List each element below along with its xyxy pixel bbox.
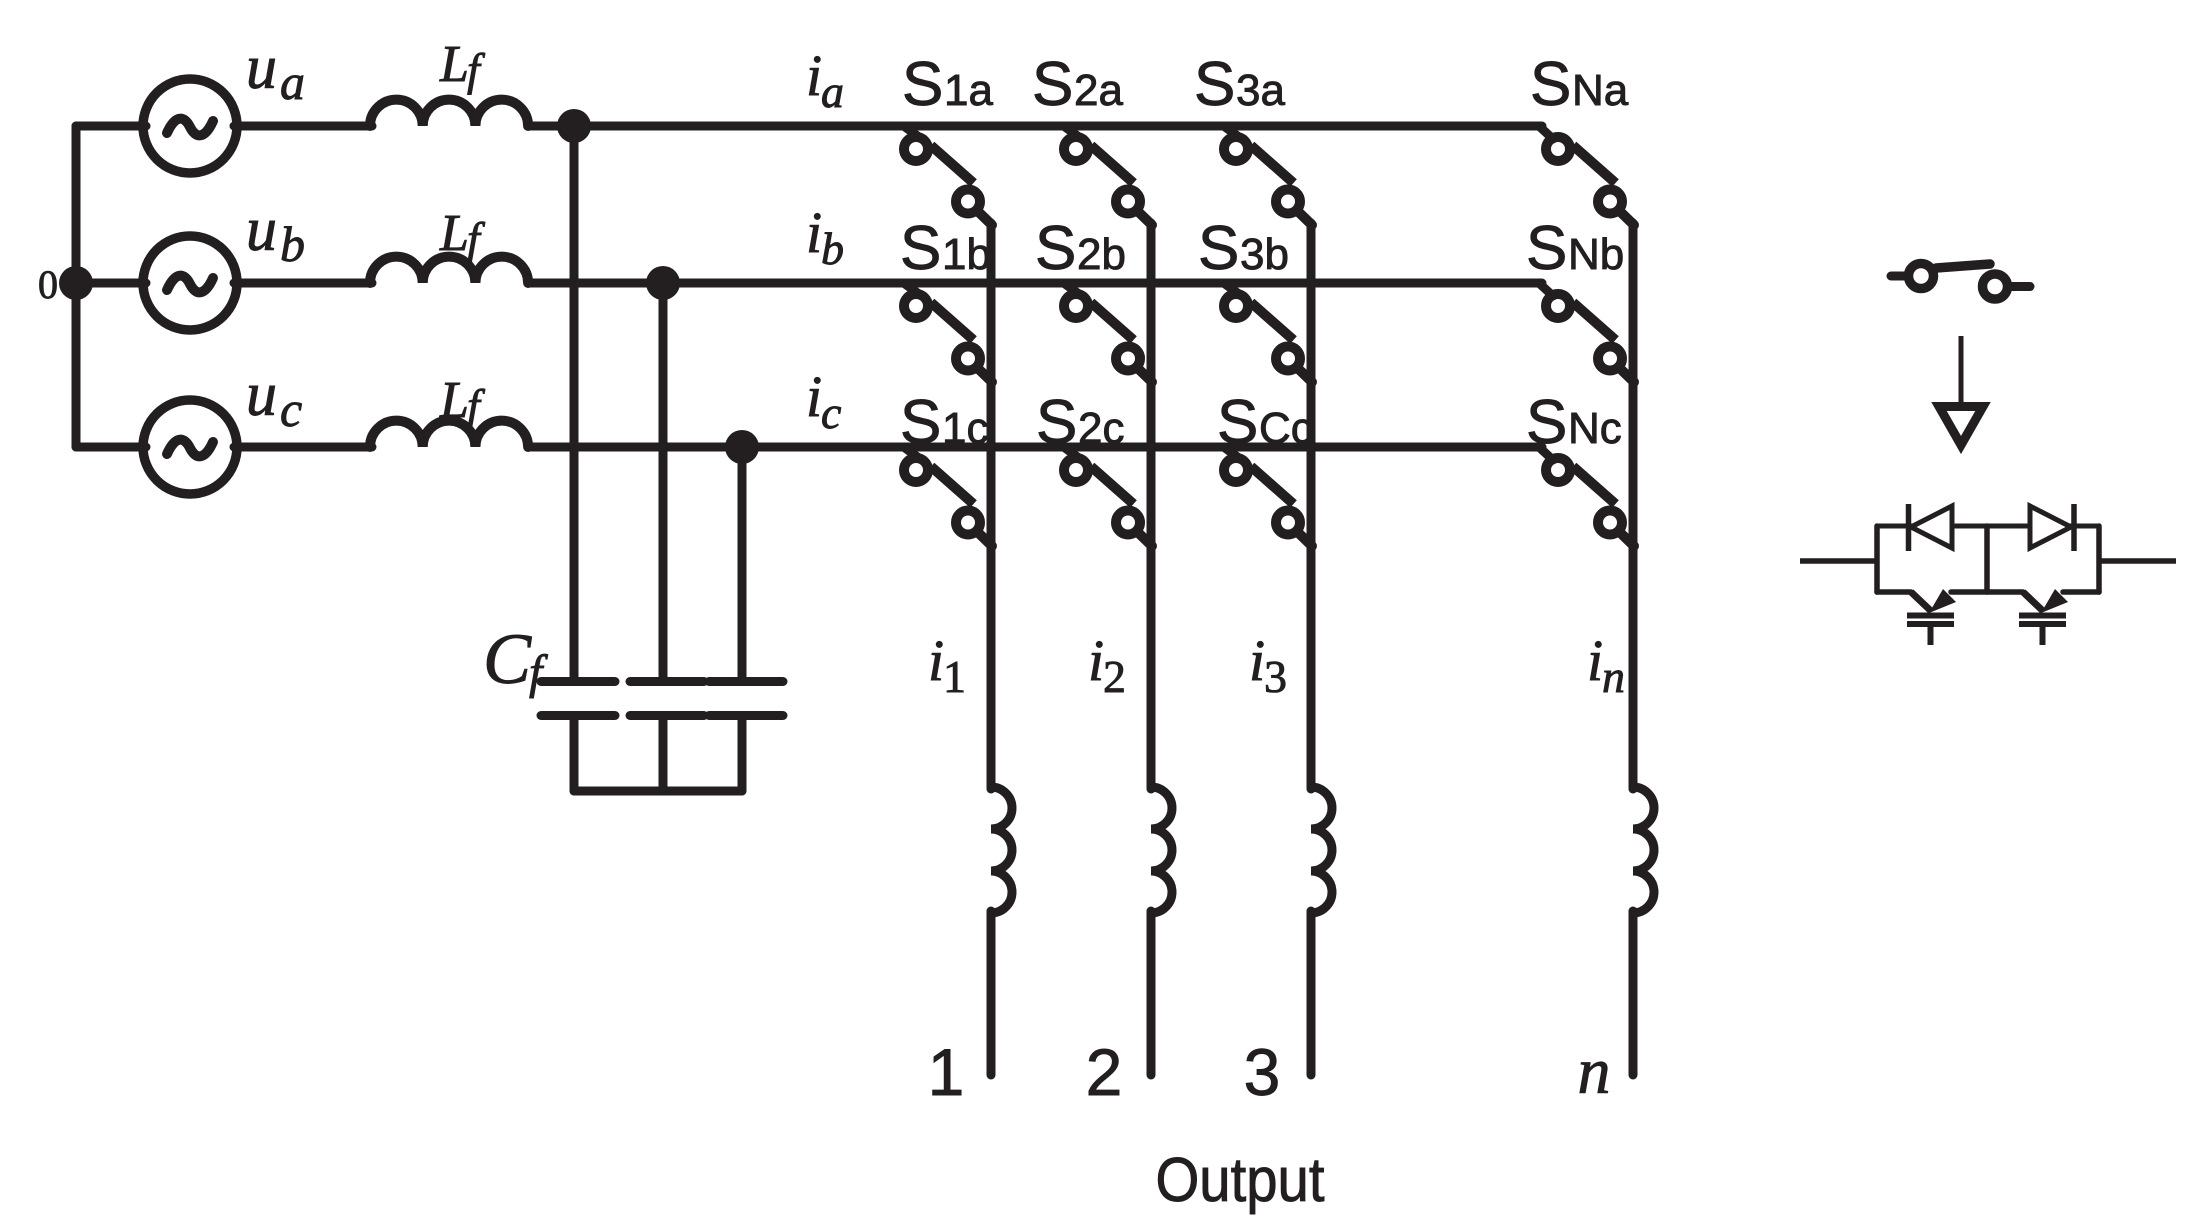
svg-text:n: n xyxy=(1602,651,1625,702)
svg-text:S: S xyxy=(1526,214,1567,283)
label ua xyxy=(246,34,305,110)
wire phase a bus xyxy=(528,122,1542,131)
svg-text:S: S xyxy=(900,214,941,283)
svg-text:a: a xyxy=(821,66,844,117)
svg-text:i: i xyxy=(928,628,944,693)
wire capacitor bottom bus xyxy=(574,787,742,796)
inductor output n xyxy=(1633,787,1654,913)
switch SNa xyxy=(1540,127,1634,225)
svg-text:S: S xyxy=(1036,388,1077,457)
wire output column n upper xyxy=(1629,223,1638,789)
svg-text:S: S xyxy=(1198,214,1239,283)
svg-text:3a: 3a xyxy=(1236,66,1285,115)
svg-text:S: S xyxy=(1035,214,1076,283)
wire source ua to inductor Lf xyxy=(234,122,372,131)
junction node phase b xyxy=(646,266,680,300)
switch S2a xyxy=(1064,127,1152,225)
label current i2 xyxy=(1088,628,1126,702)
svg-text:1c: 1c xyxy=(942,404,988,453)
switch S1c xyxy=(904,448,992,546)
svg-text:1b: 1b xyxy=(942,230,991,279)
svg-text:Na: Na xyxy=(1572,66,1629,115)
legend switch symbol xyxy=(1891,264,2030,300)
svg-text:L: L xyxy=(439,372,469,429)
switch SNb xyxy=(1540,284,1634,382)
switch SCc xyxy=(1224,448,1312,546)
label S1a xyxy=(902,50,993,119)
label SNc xyxy=(1526,388,1622,457)
svg-text:2: 2 xyxy=(1103,651,1126,702)
label S1c xyxy=(900,388,988,457)
svg-text:3b: 3b xyxy=(1240,230,1289,279)
svg-text:S: S xyxy=(1032,50,1073,119)
AC source uc xyxy=(143,400,237,494)
wire rail to source ua xyxy=(76,122,146,131)
switch S3a xyxy=(1224,127,1312,225)
svg-text:1: 1 xyxy=(928,1035,965,1109)
svg-text:S: S xyxy=(1194,50,1235,119)
svg-text:i: i xyxy=(806,43,822,108)
wire output column 2 lower xyxy=(1147,911,1156,1075)
wire source ub to inductor Lf xyxy=(234,279,372,288)
svg-text:i: i xyxy=(1587,628,1603,693)
switch SNc xyxy=(1540,448,1634,546)
transistor Q1 (IGBT) xyxy=(1907,589,1956,645)
svg-text:0: 0 xyxy=(38,262,58,307)
label SNa xyxy=(1530,50,1629,119)
svg-text:Nc: Nc xyxy=(1568,404,1622,453)
label current ia xyxy=(806,43,844,117)
label SCc xyxy=(1217,388,1313,457)
svg-text:2: 2 xyxy=(1086,1035,1123,1109)
svg-text:S: S xyxy=(902,50,943,119)
label S2c xyxy=(1036,388,1124,457)
svg-text:3: 3 xyxy=(1264,651,1287,702)
svg-text:u: u xyxy=(246,34,277,102)
transistor Q2 (IGBT) xyxy=(2019,589,2068,645)
wire rail to source ub xyxy=(76,279,146,288)
wire phase b down to capacitor xyxy=(659,283,668,679)
svg-text:c: c xyxy=(280,381,302,437)
svg-text:Output: Output xyxy=(1156,1146,1325,1215)
wire left rail xyxy=(72,126,81,447)
switch S3b xyxy=(1224,284,1312,382)
capacitor Cf2 xyxy=(630,682,704,792)
inductor output 1 xyxy=(991,787,1012,913)
svg-text:u: u xyxy=(246,361,277,429)
capacitor Cf1 xyxy=(541,682,615,792)
switch S1a xyxy=(904,127,992,225)
svg-text:b: b xyxy=(280,216,305,272)
value label Lf (phase b) xyxy=(439,205,486,264)
svg-text:c: c xyxy=(821,387,841,438)
wire output column 1 lower xyxy=(987,911,996,1075)
svg-text:1: 1 xyxy=(943,651,966,702)
svg-text:b: b xyxy=(821,223,844,274)
wire source uc to inductor Lf xyxy=(234,443,372,452)
svg-text:i: i xyxy=(1249,628,1265,693)
inductor output 3 xyxy=(1311,787,1332,913)
label current in xyxy=(1587,628,1625,702)
value label Cf xyxy=(483,619,548,699)
inductor Lf (phase b) xyxy=(370,257,528,283)
label S2b xyxy=(1035,214,1126,283)
junction node phase a xyxy=(557,109,591,143)
switch S2b xyxy=(1064,284,1152,382)
svg-text:2b: 2b xyxy=(1077,230,1126,279)
wire output column 1 upper xyxy=(987,223,996,789)
value label Lf (phase a) xyxy=(439,36,486,95)
svg-text:2c: 2c xyxy=(1078,404,1124,453)
inductor Lf (phase c) xyxy=(370,421,528,447)
wire phase c down to capacitor xyxy=(738,447,747,679)
svg-text:2a: 2a xyxy=(1074,66,1123,115)
switch S1b xyxy=(904,284,992,382)
label current i1 xyxy=(928,628,966,702)
label uc xyxy=(246,361,302,437)
svg-text:L: L xyxy=(439,36,469,93)
svg-text:S: S xyxy=(900,388,941,457)
svg-text:i: i xyxy=(1088,628,1104,693)
label current i3 xyxy=(1249,628,1287,702)
svg-text:i: i xyxy=(806,200,822,265)
wire phase b bus xyxy=(528,279,1542,288)
AC source ub xyxy=(143,236,237,330)
label S3a xyxy=(1194,50,1285,119)
value label Lf (phase c) xyxy=(439,372,486,431)
svg-text:Nb: Nb xyxy=(1568,230,1624,279)
wire output column n lower xyxy=(1629,911,1638,1075)
svg-text:n: n xyxy=(1578,1035,1611,1108)
inductor output 2 xyxy=(1151,787,1172,913)
wire rail to source uc xyxy=(76,443,146,452)
label current ic xyxy=(806,364,841,438)
wire output column 3 lower xyxy=(1307,911,1316,1075)
label S1b xyxy=(900,214,991,283)
legend bidirectional switch frame xyxy=(1877,526,2099,592)
svg-text:u: u xyxy=(246,196,277,264)
label S3b xyxy=(1198,214,1289,283)
diode D2 xyxy=(2030,504,2074,551)
svg-text:L: L xyxy=(439,205,469,262)
AC source ua xyxy=(143,79,237,173)
label current ib xyxy=(806,200,844,274)
svg-text:a: a xyxy=(280,54,305,110)
wire output column 3 upper xyxy=(1307,223,1316,789)
svg-text:S: S xyxy=(1217,388,1258,457)
wire output column 2 upper xyxy=(1147,223,1156,789)
diode D1 xyxy=(1909,504,1953,551)
svg-text:S: S xyxy=(1526,388,1567,457)
svg-text:C: C xyxy=(483,619,532,699)
node 0 xyxy=(59,266,93,300)
legend bidirectional switch wire left lead xyxy=(1800,558,1877,564)
inductor Lf (phase a) xyxy=(370,100,528,126)
wire phase a down to capacitor xyxy=(570,126,579,679)
svg-text:Cc: Cc xyxy=(1259,404,1313,453)
svg-text:1a: 1a xyxy=(944,66,993,115)
capacitor Cf3 xyxy=(709,682,783,792)
svg-text:S: S xyxy=(1530,50,1571,119)
legend bidirectional switch wire right lead xyxy=(2099,558,2176,564)
label SNb xyxy=(1526,214,1624,283)
label S2a xyxy=(1032,50,1123,119)
svg-text:i: i xyxy=(806,364,822,429)
label ub xyxy=(246,196,305,272)
switch S2c xyxy=(1064,448,1152,546)
legend arrow xyxy=(1939,336,1983,445)
junction node phase c xyxy=(725,430,759,464)
wire phase c bus xyxy=(528,443,1542,452)
svg-text:3: 3 xyxy=(1244,1035,1281,1109)
